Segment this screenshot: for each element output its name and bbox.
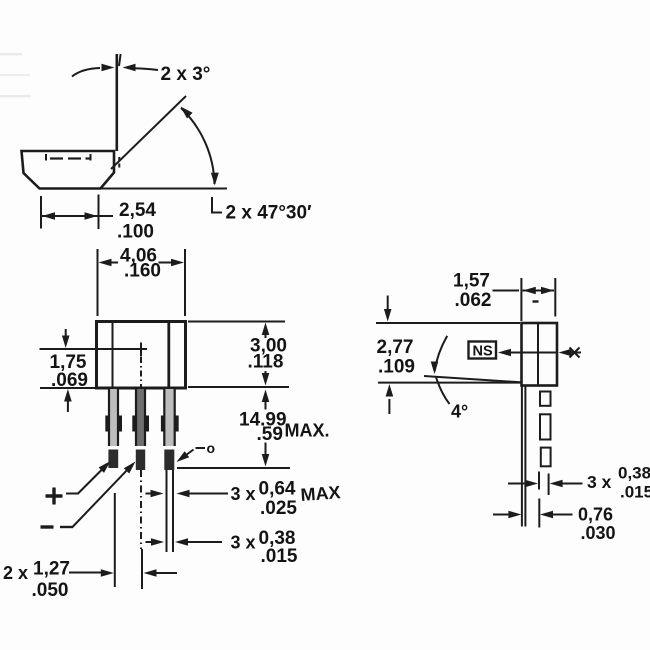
svg-text:.050: .050 — [32, 580, 69, 601]
svg-text:3 x: 3 x — [587, 472, 612, 492]
body top/bottom extension lines to the right — [188, 322, 289, 388]
dimension 3 x 0,38/.015 (side view lead) — [508, 472, 583, 496]
angle arc 4 deg with arrowhead — [431, 336, 448, 374]
label + (positive lead) with leader — [46, 461, 111, 505]
svg-text:2 x 47°30′: 2 x 47°30′ — [226, 203, 313, 224]
dimension 3 x 0,64/.025 MAX (lead width) — [146, 490, 229, 498]
right arrow and dash to 2x3 deg label — [123, 64, 159, 71]
angle arc 47 deg with arrowheads — [181, 107, 219, 186]
svg-text:2,54: 2,54 — [119, 200, 156, 221]
seating plane lines (4 deg) — [378, 376, 521, 383]
svg-text:.59: .59 — [257, 424, 283, 445]
baseline extending right from body bottom — [101, 188, 227, 190]
dimension 2,54/.100 under body — [41, 195, 113, 230]
dimension 2,77/.109 left of side body — [384, 296, 393, 415]
package body front view — [97, 322, 186, 389]
svg-text:1,57: 1,57 — [453, 271, 490, 292]
body outline (bent package, top-left view) — [22, 151, 115, 189]
svg-text:0,76: 0,76 — [578, 505, 613, 525]
hidden slot dashed line inside body — [46, 154, 91, 161]
lead 2 (center) — [132, 389, 149, 470]
svg-text:0,64: 0,64 — [259, 479, 296, 500]
svg-text:.109: .109 — [378, 357, 415, 378]
svg-text:4°: 4° — [451, 402, 468, 422]
svg-text:2 x: 2 x — [3, 563, 28, 583]
label - (negative lead) with leader — [41, 462, 136, 528]
svg-text:NS: NS — [473, 344, 493, 360]
arrow from body to NS box — [498, 349, 557, 357]
vertical lead line rising from body — [117, 54, 121, 151]
dimension 2 x 1,27/.050 (lead pitch) — [69, 569, 177, 577]
dimension 1,57/.062 over side body — [493, 278, 556, 321]
svg-text:MAX: MAX — [300, 482, 341, 505]
dimension 14.99/.59 MAX right side — [262, 390, 270, 467]
hidden rear lead (dashed) — [540, 392, 551, 467]
package body side view — [522, 323, 558, 386]
body top extension line to the left — [376, 322, 520, 324]
svg-text:2,77: 2,77 — [377, 337, 414, 358]
diagonal bent-lead line (47 deg) — [111, 96, 186, 169]
dimension 1,75/.069 left side — [40, 329, 96, 412]
svg-text:2 x 3°: 2 x 3° — [161, 64, 211, 85]
svg-text:.100: .100 — [117, 222, 154, 243]
svg-text:.025: .025 — [260, 498, 297, 519]
svg-text:.015: .015 — [620, 483, 650, 502]
arrow at right body face — [559, 348, 582, 358]
lead 3 (right) — [161, 389, 179, 552]
dimension 0,76/.030 (lead thickness) — [493, 499, 573, 528]
leader L to 47deg30 label — [212, 197, 222, 213]
svg-text:0,38: 0,38 — [618, 464, 650, 483]
scan noise marks left edge — [0, 53, 31, 97]
svg-text:.030: .030 — [581, 523, 616, 543]
extension lines below leads — [115, 470, 142, 589]
svg-text:MAX.: MAX. — [285, 421, 330, 441]
svg-text:.160: .160 — [124, 261, 161, 282]
svg-text:o: o — [207, 440, 216, 456]
dimension 4,06/.160 over body — [98, 249, 186, 316]
lead 1 (left) — [105, 389, 122, 468]
svg-text:1,27: 1,27 — [33, 559, 70, 580]
NS box label — [469, 342, 497, 360]
svg-text:.069: .069 — [51, 370, 88, 391]
lead-tip reference line — [177, 467, 290, 469]
svg-text:.062: .062 — [455, 290, 492, 311]
svg-text:3 x: 3 x — [231, 533, 256, 553]
svg-text:.118: .118 — [248, 352, 284, 373]
scan mark under 1,57 dimension — [533, 300, 539, 302]
front lead in side view — [522, 386, 526, 527]
dimension 3 x 0,38/.015 (lead tip width) — [146, 538, 223, 546]
curved leader with arrow (left of lead, 3 deg callout) — [72, 64, 115, 77]
center cross and datum line — [40, 343, 148, 389]
leader and label 4 deg — [436, 377, 468, 422]
dimension 3,00/.118 right side — [262, 323, 270, 386]
svg-text:.015: .015 — [261, 546, 298, 567]
svg-text:3 x: 3 x — [231, 484, 256, 504]
label o with leader to lead 3 — [177, 440, 216, 462]
